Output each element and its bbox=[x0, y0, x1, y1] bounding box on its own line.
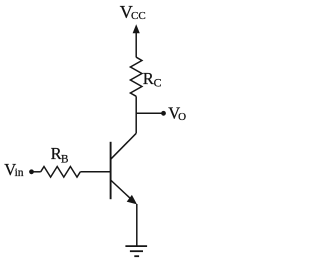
VCC supply arrow bbox=[133, 24, 140, 57]
wire: emitter to ground bbox=[136, 204, 138, 246]
resistor RB bbox=[41, 167, 81, 178]
wire: RB to base bbox=[80, 171, 110, 173]
terminal dot Vin bbox=[29, 169, 34, 174]
svg-text:VO: VO bbox=[168, 103, 186, 123]
ground bbox=[125, 246, 147, 256]
resistor RC bbox=[130, 57, 142, 96]
svg-text:RB: RB bbox=[51, 144, 69, 165]
svg-text:VCC: VCC bbox=[120, 2, 146, 22]
svg-text:Vin: Vin bbox=[4, 160, 24, 179]
junction dot VO node bbox=[161, 111, 166, 116]
transistor Q1 bbox=[111, 133, 137, 204]
svg-text:RC: RC bbox=[143, 69, 162, 90]
wire: collector node to VO bbox=[136, 112, 163, 114]
wire: Vin dot to RB bbox=[32, 171, 41, 173]
wire: RC to collector elbow bbox=[135, 96, 137, 133]
